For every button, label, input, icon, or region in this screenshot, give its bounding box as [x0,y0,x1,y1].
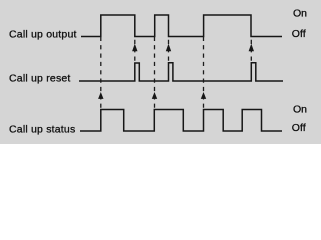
arrow: reset pulse 1 (x=134.6) [132,44,137,52]
svg-text:On: On [293,103,307,115]
dashed line: output falling edge 1 to reset pulse 1 (x=134.6) [134,40,136,63]
dashed line: output rising edge 2 to status rising edge 2 (x=154.3) [154,37,156,109]
arrow: reset pulse 3 (x=251.2) [249,44,254,52]
arrow: status rising edge 2 (x=154.3) [152,92,157,99]
arrow: reset pulse 2 (x=168.2) [166,44,171,52]
dashed line: output rising edge 1 to status rising edge 1 (x=100.5) [100,37,102,109]
arrow: status rising edge 3 (x=203) [201,92,206,99]
arrow: status rising edge 1 (x=100.5) [98,92,103,99]
svg-text:On: On [293,8,307,20]
dashed line: output falling edge 2 to reset pulse 2 (x=168.2) [168,40,170,63]
svg-text:Call up status: Call up status [9,123,75,135]
svg-text:Call up output: Call up output [9,28,77,40]
dashed line: output rising edge 3 to status rising edge 3 (x=203) [203,37,205,109]
waveform: Call up status [80,110,282,132]
svg-text:Off: Off [292,122,306,134]
svg-text:Off: Off [292,28,306,40]
waveform: Call up reset (baseline with pulses) [79,63,283,81]
svg-text:Call up reset: Call up reset [9,73,71,85]
waveform: Call up output [81,15,282,37]
dashed line: output falling edge 3 to reset pulse 3 (x=251.2) [250,40,252,63]
